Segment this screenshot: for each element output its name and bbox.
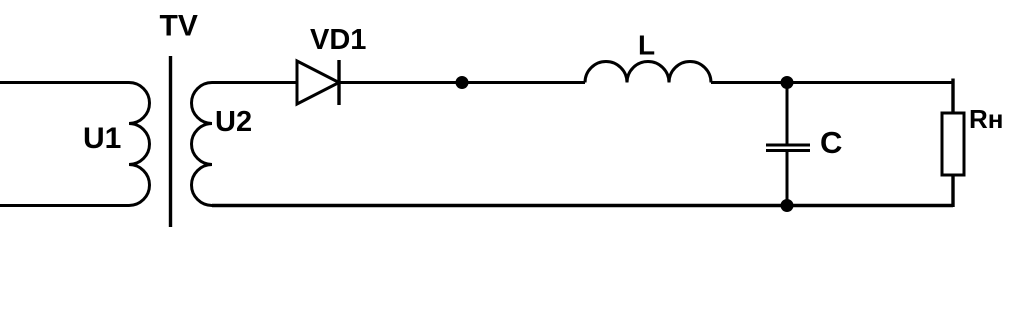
transformer TV primary winding with wires xyxy=(0,83,150,206)
resistor Rн body xyxy=(942,113,964,175)
svg-text:VD1: VD1 xyxy=(310,24,366,56)
capacitor C top plate xyxy=(766,144,810,147)
capacitor C bottom lead xyxy=(786,151,789,206)
transformer TV core xyxy=(169,56,172,227)
svg-text:TV: TV xyxy=(160,10,198,43)
wire inductor to capacitor node xyxy=(711,81,953,84)
transformer TV secondary winding U2 xyxy=(192,83,298,206)
wire cathode to inductor xyxy=(339,81,585,84)
bottom bus wire xyxy=(212,204,953,207)
node junction dot xyxy=(456,76,469,89)
capacitor C top lead xyxy=(786,83,789,146)
svg-text:L: L xyxy=(638,30,655,61)
svg-text:Rн: Rн xyxy=(969,104,1003,134)
diode VD1 cathode bar xyxy=(337,60,340,105)
svg-text:C: C xyxy=(820,125,842,160)
wire top-right corner down to resistor xyxy=(951,79,954,114)
svg-text:U1: U1 xyxy=(83,122,121,155)
svg-text:U2: U2 xyxy=(215,106,252,138)
wire resistor bottom to bus xyxy=(951,175,954,207)
capacitor C bottom plate xyxy=(766,149,810,152)
node dot top of capacitor xyxy=(781,76,794,89)
node dot bottom of capacitor xyxy=(781,199,794,212)
diode VD1 triangle xyxy=(297,61,339,104)
inductor L xyxy=(585,62,711,83)
